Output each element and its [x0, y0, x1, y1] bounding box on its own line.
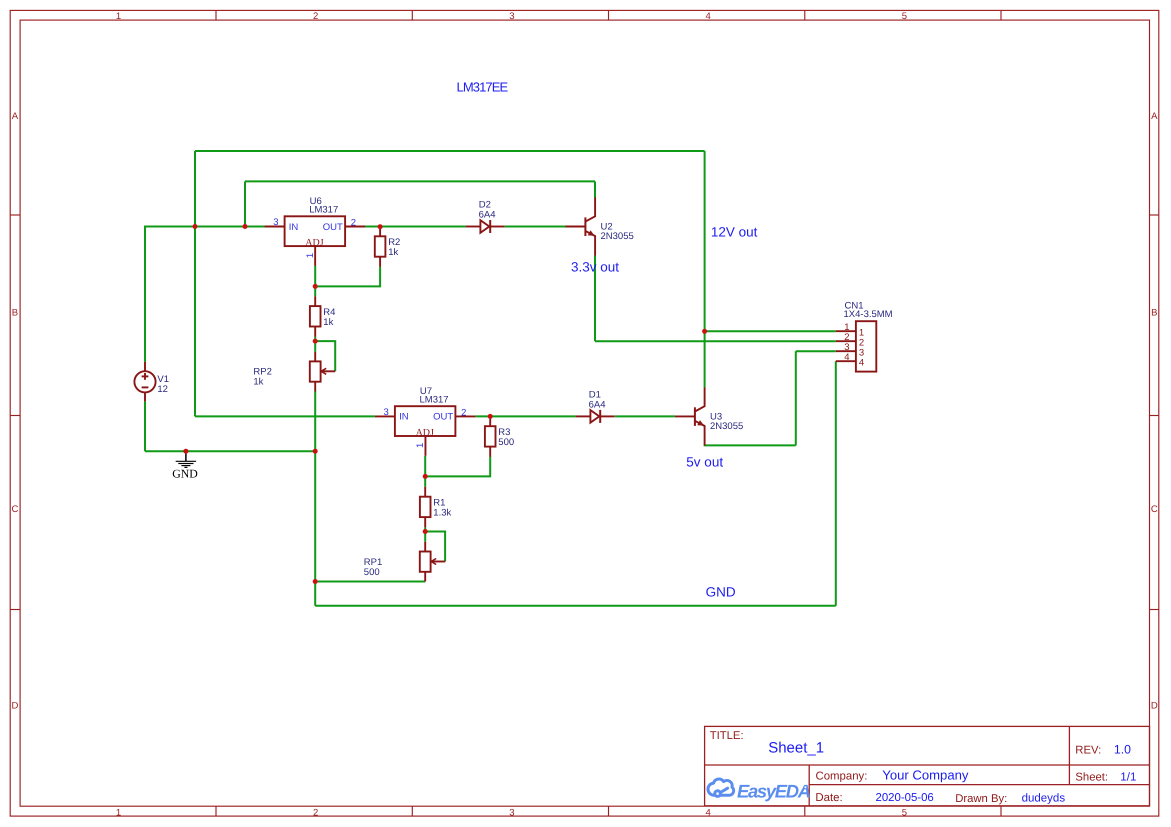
svg-text:1: 1	[305, 253, 316, 258]
svg-text:LM317: LM317	[420, 394, 449, 405]
svg-text:Date:: Date:	[815, 792, 842, 804]
svg-text:3: 3	[509, 11, 514, 22]
svg-text:4: 4	[844, 352, 849, 363]
wire RP1 bottom line	[315, 581, 425, 583]
transistor U3 2N3055	[675, 387, 705, 445]
wire U6 ADJ down	[314, 266, 316, 297]
svg-text:1k: 1k	[388, 247, 398, 258]
svg-text:1: 1	[116, 11, 121, 22]
svg-text:Sheet_1: Sheet_1	[768, 740, 824, 757]
wire U2 collector stub	[594, 181, 596, 198]
svg-text:B: B	[12, 307, 18, 318]
wire RP2 wiper loop	[315, 341, 335, 371]
svg-text:3: 3	[509, 808, 514, 819]
svg-text:GND: GND	[706, 585, 736, 600]
svg-text:6A4: 6A4	[479, 210, 496, 221]
svg-text:LM317EE: LM317EE	[457, 80, 509, 95]
wire R1 bottom to RP1 top	[424, 527, 426, 542]
resistor R4 1k	[310, 296, 321, 336]
svg-text:4: 4	[859, 357, 864, 368]
resistor R3 500	[485, 416, 496, 456]
svg-text:1X4-3.5MM: 1X4-3.5MM	[844, 309, 893, 320]
wire V1 minus drop	[144, 401, 146, 451]
svg-text:REV:: REV:	[1075, 745, 1101, 757]
junction U6 IN / top-rail drop	[193, 224, 198, 229]
svg-text:1.3k: 1.3k	[433, 507, 451, 518]
svg-text:3.3v out: 3.3v out	[571, 260, 619, 275]
connector CN1 1X4-3.5MM	[836, 321, 877, 371]
transistor U2 2N3055	[565, 197, 595, 255]
svg-text:12V out: 12V out	[711, 225, 758, 240]
junction U6 ADJ / R2 bottom	[313, 284, 318, 289]
svg-text:IN: IN	[399, 412, 409, 423]
svg-text:OUT: OUT	[323, 222, 343, 233]
svg-text:2020-05-06: 2020-05-06	[876, 792, 934, 804]
svg-text:1/1: 1/1	[1120, 771, 1136, 784]
svg-text:Your Company: Your Company	[882, 768, 969, 783]
svg-text:500: 500	[498, 437, 514, 448]
svg-text:Drawn By:: Drawn By:	[955, 793, 1007, 805]
potentiometer RP2 1k	[310, 352, 335, 392]
potentiometer RP1 500	[420, 542, 445, 582]
wire R4 to RP2	[314, 337, 316, 352]
svg-text:4: 4	[706, 808, 711, 819]
diode D1 6A4	[576, 410, 615, 423]
svg-text:2N3055: 2N3055	[710, 421, 743, 432]
svg-text:3: 3	[384, 407, 389, 418]
svg-text:EasyEDA: EasyEDA	[737, 781, 810, 802]
wire U7 OUT to D1	[475, 415, 575, 417]
svg-text:2N3055: 2N3055	[601, 231, 634, 242]
svg-text:4: 4	[706, 11, 711, 22]
title block	[705, 726, 1150, 805]
svg-text:IN: IN	[289, 222, 299, 233]
wire 12V top rail	[195, 150, 705, 152]
svg-text:5v out: 5v out	[686, 454, 723, 469]
svg-text:1.0: 1.0	[1114, 742, 1131, 756]
wire 12V to U3 collector	[704, 331, 706, 387]
svg-text:1: 1	[415, 443, 426, 448]
voltage source V1	[134, 362, 155, 402]
wire 12V vertical drop	[704, 151, 706, 331]
svg-text:3: 3	[273, 217, 278, 228]
svg-text:D: D	[11, 700, 18, 711]
wire left drop to U7 IN	[194, 151, 196, 416]
svg-text:Sheet:: Sheet:	[1075, 772, 1108, 784]
svg-text:5: 5	[902, 808, 907, 819]
resistor R2 1k	[375, 227, 386, 267]
wire 5v to CN1 pin3	[796, 350, 836, 352]
wire bottom GND rail	[315, 605, 836, 607]
wire V1 plus to U6 IN	[145, 227, 266, 362]
junction RP1 bottom line	[313, 579, 318, 584]
junction U7 ADJ / R3 bottom	[423, 474, 428, 479]
wire R2 bottom	[315, 267, 380, 287]
svg-text:5: 5	[902, 11, 907, 22]
resistor R1 1.3k	[420, 487, 431, 527]
wire U3 emitter corner	[705, 444, 796, 445]
junction 12V / CN1 pin1	[702, 329, 707, 334]
svg-text:6A4: 6A4	[589, 399, 606, 410]
svg-text:dudeyds: dudeyds	[1022, 793, 1066, 805]
wire 12V to CN1 pin1	[705, 330, 836, 332]
junction GND line / long vertical	[313, 449, 318, 454]
diode D2 6A4	[466, 220, 505, 233]
wire drop second rail	[244, 181, 246, 226]
svg-text:1k: 1k	[323, 317, 333, 328]
wire 3.3v to CN1 pin2	[595, 340, 836, 342]
junction GND symbol	[183, 449, 188, 454]
wire D1 to U3 base	[615, 415, 675, 417]
wire RP1 wiper loop	[425, 532, 445, 562]
svg-text:2: 2	[313, 808, 318, 819]
svg-text:2: 2	[461, 408, 466, 419]
wire U2 emitter 3.3v drop	[594, 256, 596, 342]
wire D2 cathode to U2 base	[505, 226, 566, 228]
svg-text:ADJ: ADJ	[416, 427, 434, 438]
wire R3 bottom corner	[425, 457, 490, 477]
svg-text:2: 2	[313, 11, 318, 22]
regulator U7 LM317	[375, 406, 476, 456]
wire second rail to U2 collector	[245, 180, 595, 182]
wire CN1 pin4 down	[835, 361, 837, 606]
svg-text:Company:: Company:	[816, 770, 868, 782]
svg-text:LM317: LM317	[309, 204, 338, 215]
junction R3 top	[488, 414, 493, 419]
ground symbol GND	[176, 451, 196, 467]
svg-text:ADJ: ADJ	[305, 237, 323, 248]
svg-text:C: C	[1151, 504, 1158, 515]
svg-text:D: D	[1151, 700, 1158, 711]
svg-text:A: A	[12, 111, 19, 122]
svg-text:12: 12	[157, 384, 168, 395]
wire U6 OUT to D2 anode	[365, 226, 466, 228]
junction R4 / RP2 wiper	[313, 339, 318, 344]
svg-text:B: B	[1151, 307, 1157, 318]
svg-text:C: C	[11, 504, 18, 515]
svg-text:1k: 1k	[253, 376, 263, 387]
wire RP2 bottom long vertical	[314, 391, 316, 606]
junction second-rail drop	[243, 224, 248, 229]
regulator U6 LM317	[265, 216, 366, 266]
wire U7 IN line	[195, 415, 375, 417]
svg-text:500: 500	[364, 567, 380, 578]
junction R2 top	[378, 224, 383, 229]
junction R1 bottom / RP1 wiper	[423, 529, 428, 534]
svg-text:2: 2	[351, 218, 356, 229]
svg-text:OUT: OUT	[433, 412, 453, 423]
svg-text:A: A	[1151, 111, 1158, 122]
wire U7 ADJ down	[424, 456, 426, 487]
EasyEDA logo	[708, 779, 734, 796]
wire 5v vertical	[795, 351, 797, 445]
svg-text:GND: GND	[172, 467, 198, 481]
svg-text:TITLE:: TITLE:	[710, 730, 744, 742]
wire ground line	[145, 450, 315, 452]
svg-text:1: 1	[116, 808, 121, 819]
